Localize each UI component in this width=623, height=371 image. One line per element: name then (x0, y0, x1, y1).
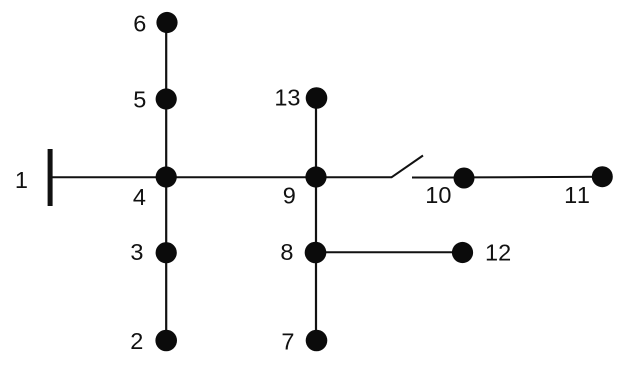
wire node8 to node12 (316, 251, 463, 253)
svg-text:10: 10 (425, 182, 451, 208)
svg-text:11: 11 (564, 182, 591, 208)
node 10 (454, 168, 475, 189)
node 6 (156, 12, 177, 33)
svg-text:6: 6 (133, 10, 146, 36)
svg-text:8: 8 (280, 239, 293, 265)
wire node9 to switch (horizontal segment) (316, 176, 392, 178)
wire node10 to node11 (464, 176, 602, 179)
svg-text:12: 12 (485, 240, 511, 266)
wire switch to node10 (412, 177, 464, 179)
node 7 (306, 330, 328, 352)
svg-text:5: 5 (133, 87, 146, 113)
svg-text:13: 13 (274, 84, 300, 110)
svg-text:1: 1 (15, 167, 28, 193)
wire node13-node9-node8-node7 (middle vertical lateral) (315, 98, 317, 341)
svg-text:3: 3 (130, 239, 143, 265)
wire node6-node5-node4-node3-node2 (left vertical lateral) (165, 23, 167, 341)
node 9 (305, 166, 326, 187)
svg-text:2: 2 (130, 328, 143, 354)
node 12 (452, 242, 473, 263)
node 11 (592, 166, 613, 187)
bus bar node 1 (source) (48, 149, 53, 206)
svg-text:4: 4 (133, 184, 146, 210)
node 8 (305, 242, 327, 264)
switch S1 open blade between node 9 and node 10 (392, 156, 424, 178)
svg-text:9: 9 (283, 183, 296, 209)
wire bus1 to node4 to node9 (main horizontal feeder) (52, 176, 316, 178)
node 5 (156, 88, 177, 109)
node 3 (156, 242, 177, 263)
node 4 (156, 166, 177, 187)
node 13 (306, 87, 328, 109)
node 2 (155, 330, 177, 352)
svg-text:7: 7 (281, 329, 294, 355)
